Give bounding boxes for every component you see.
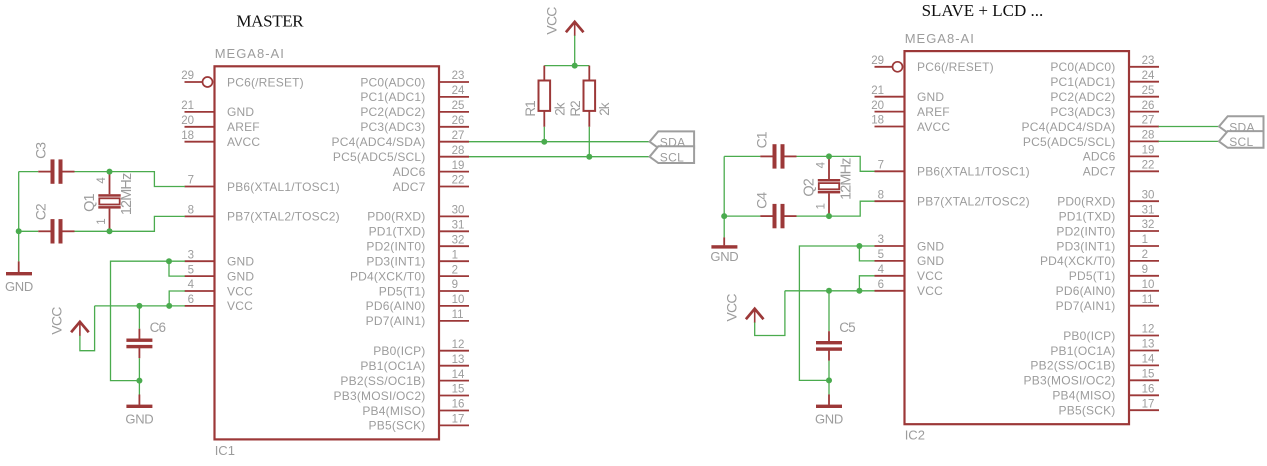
svg-text:PB3(MOSI/OC2): PB3(MOSI/OC2)	[334, 389, 426, 403]
svg-text:31: 31	[1142, 204, 1155, 216]
svg-text:GND: GND	[5, 279, 33, 294]
svg-text:22: 22	[452, 175, 465, 187]
svg-text:PD6(AIN0): PD6(AIN0)	[1056, 284, 1116, 298]
svg-text:R2: R2	[568, 101, 583, 117]
svg-text:6: 6	[878, 279, 884, 291]
svg-text:22: 22	[1142, 160, 1155, 172]
svg-text:AVCC: AVCC	[917, 120, 950, 134]
svg-text:PB7(XTAL2/TOSC2): PB7(XTAL2/TOSC2)	[227, 210, 340, 224]
svg-text:PB4(MISO): PB4(MISO)	[1052, 389, 1115, 403]
svg-text:25: 25	[452, 100, 465, 112]
svg-text:6: 6	[188, 294, 194, 306]
svg-text:VCC: VCC	[227, 284, 253, 298]
svg-text:PB6(XTAL1/TOSC1): PB6(XTAL1/TOSC1)	[227, 180, 340, 194]
svg-text:17: 17	[452, 414, 465, 426]
svg-text:PC6(/RESET): PC6(/RESET)	[917, 60, 994, 74]
svg-text:PD3(INT1): PD3(INT1)	[366, 255, 425, 269]
svg-text:28: 28	[1142, 130, 1155, 142]
svg-text:30: 30	[1142, 189, 1155, 201]
svg-text:20: 20	[871, 100, 884, 112]
svg-text:PB3(MOSI/OC2): PB3(MOSI/OC2)	[1024, 374, 1116, 388]
svg-text:PC6(/RESET): PC6(/RESET)	[227, 75, 304, 89]
svg-text:VCC: VCC	[227, 299, 253, 313]
svg-text:R1: R1	[523, 101, 538, 117]
svg-text:GND: GND	[227, 255, 254, 269]
svg-text:PC4(ADC4/SDA): PC4(ADC4/SDA)	[332, 135, 426, 149]
svg-text:SLAVE + LCD ...: SLAVE + LCD ...	[922, 1, 1044, 20]
svg-text:VCC: VCC	[544, 7, 560, 35]
svg-text:GND: GND	[227, 269, 254, 283]
svg-text:VCC: VCC	[917, 269, 943, 283]
svg-text:PD7(AIN1): PD7(AIN1)	[366, 314, 426, 328]
svg-text:3: 3	[188, 249, 194, 261]
svg-text:C2: C2	[33, 203, 49, 220]
svg-text:PB4(MISO): PB4(MISO)	[362, 404, 425, 418]
svg-text:2k: 2k	[552, 102, 567, 116]
svg-text:PD1(TXD): PD1(TXD)	[1059, 209, 1116, 223]
svg-text:PC1(ADC1): PC1(ADC1)	[1050, 75, 1115, 89]
svg-text:2k: 2k	[597, 102, 612, 116]
svg-text:18: 18	[871, 115, 884, 127]
svg-text:27: 27	[452, 130, 465, 142]
svg-text:Q2: Q2	[801, 178, 817, 196]
svg-text:30: 30	[452, 205, 465, 217]
svg-text:ADC7: ADC7	[393, 180, 426, 194]
svg-text:PD5(T1): PD5(T1)	[1069, 269, 1116, 283]
svg-text:AREF: AREF	[917, 105, 950, 119]
svg-text:14: 14	[1142, 354, 1155, 366]
svg-text:1: 1	[816, 203, 828, 209]
svg-text:ADC6: ADC6	[393, 165, 426, 179]
svg-text:7: 7	[188, 175, 194, 187]
svg-text:12MHz: 12MHz	[119, 173, 135, 215]
svg-text:PD5(T1): PD5(T1)	[379, 284, 426, 298]
svg-text:PC3(ADC3): PC3(ADC3)	[1050, 105, 1115, 119]
svg-text:PD0(RXD): PD0(RXD)	[367, 210, 425, 224]
svg-text:IC1: IC1	[215, 443, 235, 458]
svg-text:C5: C5	[839, 320, 855, 335]
svg-text:PC3(ADC3): PC3(ADC3)	[360, 120, 425, 134]
svg-text:23: 23	[452, 70, 465, 82]
svg-text:10: 10	[452, 294, 465, 306]
svg-text:PB2(SS/OC1B): PB2(SS/OC1B)	[1030, 359, 1115, 373]
svg-text:15: 15	[452, 384, 465, 396]
svg-text:13: 13	[452, 354, 465, 366]
svg-text:PB6(XTAL1/TOSC1): PB6(XTAL1/TOSC1)	[917, 165, 1030, 179]
svg-text:19: 19	[1142, 145, 1155, 157]
svg-text:21: 21	[871, 85, 884, 97]
svg-text:VCC: VCC	[917, 284, 943, 298]
svg-text:1: 1	[452, 249, 458, 261]
svg-text:ADC6: ADC6	[1083, 150, 1116, 164]
svg-text:SCL: SCL	[1229, 135, 1253, 149]
svg-text:5: 5	[188, 264, 194, 276]
svg-text:18: 18	[181, 130, 194, 142]
svg-text:27: 27	[1142, 115, 1155, 127]
svg-text:4: 4	[96, 177, 108, 184]
svg-text:4: 4	[188, 279, 195, 291]
svg-text:11: 11	[1142, 294, 1154, 306]
svg-text:GND: GND	[227, 105, 254, 119]
svg-text:PD3(INT1): PD3(INT1)	[1056, 239, 1115, 253]
svg-text:SCL: SCL	[660, 151, 684, 165]
svg-text:MEGA8-AI: MEGA8-AI	[905, 31, 975, 46]
svg-text:11: 11	[452, 309, 464, 321]
svg-text:PC4(ADC4/SDA): PC4(ADC4/SDA)	[1022, 120, 1116, 134]
svg-text:AVCC: AVCC	[227, 135, 260, 149]
svg-text:8: 8	[878, 189, 884, 201]
svg-text:21: 21	[181, 100, 194, 112]
svg-text:PD1(TXD): PD1(TXD)	[369, 225, 426, 239]
svg-text:GND: GND	[917, 239, 944, 253]
svg-text:4: 4	[816, 161, 828, 168]
svg-text:25: 25	[1142, 85, 1155, 97]
svg-text:26: 26	[452, 115, 465, 127]
svg-text:VCC: VCC	[724, 294, 740, 322]
svg-text:32: 32	[1142, 219, 1155, 231]
svg-text:PB0(ICP): PB0(ICP)	[373, 344, 425, 358]
svg-text:PD4(XCK/T0): PD4(XCK/T0)	[350, 269, 426, 283]
svg-text:13: 13	[1142, 339, 1155, 351]
svg-text:28: 28	[452, 145, 465, 157]
svg-text:PB1(OC1A): PB1(OC1A)	[360, 359, 425, 373]
svg-text:PD0(RXD): PD0(RXD)	[1057, 195, 1115, 209]
svg-text:PC5(ADC5/SCL): PC5(ADC5/SCL)	[1023, 135, 1116, 149]
svg-text:IC2: IC2	[905, 428, 925, 443]
svg-text:PD2(INT0): PD2(INT0)	[366, 240, 425, 254]
svg-text:PC0(ADC0): PC0(ADC0)	[1050, 60, 1115, 74]
svg-text:26: 26	[1142, 100, 1155, 112]
svg-text:24: 24	[1142, 70, 1155, 82]
svg-text:8: 8	[188, 205, 194, 217]
svg-text:GND: GND	[815, 411, 843, 426]
svg-text:12: 12	[452, 339, 465, 351]
svg-text:PD2(INT0): PD2(INT0)	[1056, 224, 1115, 238]
svg-text:C1: C1	[753, 131, 769, 148]
svg-text:7: 7	[878, 160, 884, 172]
svg-text:GND: GND	[917, 90, 944, 104]
svg-text:GND: GND	[917, 254, 944, 268]
svg-text:PC0(ADC0): PC0(ADC0)	[360, 75, 425, 89]
svg-text:17: 17	[1142, 398, 1155, 410]
svg-text:PB7(XTAL2/TOSC2): PB7(XTAL2/TOSC2)	[917, 195, 1030, 209]
svg-text:C3: C3	[33, 142, 49, 159]
svg-text:15: 15	[1142, 369, 1155, 381]
svg-text:ADC7: ADC7	[1083, 165, 1116, 179]
svg-text:PC1(ADC1): PC1(ADC1)	[360, 90, 425, 104]
svg-text:12MHz: 12MHz	[839, 158, 855, 200]
svg-text:1: 1	[1142, 234, 1148, 246]
svg-text:Q1: Q1	[82, 193, 98, 211]
svg-text:C6: C6	[150, 320, 166, 335]
svg-text:2: 2	[452, 264, 458, 276]
svg-text:20: 20	[181, 115, 194, 127]
svg-text:29: 29	[871, 55, 884, 67]
svg-text:PC2(ADC2): PC2(ADC2)	[1050, 90, 1115, 104]
svg-text:29: 29	[181, 70, 194, 82]
svg-text:16: 16	[452, 399, 465, 411]
svg-text:19: 19	[452, 160, 465, 172]
svg-text:PB0(ICP): PB0(ICP)	[1063, 329, 1115, 343]
svg-text:32: 32	[452, 234, 465, 246]
svg-text:31: 31	[452, 220, 465, 232]
svg-text:9: 9	[1142, 264, 1148, 276]
svg-text:GND: GND	[710, 249, 738, 264]
svg-text:23: 23	[1142, 55, 1155, 67]
svg-text:PB1(OC1A): PB1(OC1A)	[1050, 344, 1115, 358]
svg-text:14: 14	[452, 369, 465, 381]
svg-text:MASTER: MASTER	[236, 12, 304, 31]
svg-text:C4: C4	[753, 192, 769, 209]
svg-text:9: 9	[452, 279, 458, 291]
svg-text:PD4(XCK/T0): PD4(XCK/T0)	[1040, 254, 1116, 268]
svg-text:PC2(ADC2): PC2(ADC2)	[360, 105, 425, 119]
svg-text:PB5(SCK): PB5(SCK)	[369, 419, 426, 433]
svg-text:3: 3	[878, 234, 884, 246]
svg-text:12: 12	[1142, 324, 1155, 336]
svg-text:GND: GND	[125, 411, 153, 426]
svg-text:4: 4	[878, 264, 885, 276]
svg-text:16: 16	[1142, 384, 1155, 396]
svg-text:PD7(AIN1): PD7(AIN1)	[1056, 299, 1116, 313]
svg-text:VCC: VCC	[49, 307, 65, 335]
svg-text:24: 24	[452, 85, 465, 97]
svg-text:1: 1	[96, 218, 108, 224]
svg-text:5: 5	[878, 249, 884, 261]
svg-text:2: 2	[1142, 249, 1148, 261]
svg-text:PC5(ADC5/SCL): PC5(ADC5/SCL)	[333, 150, 426, 164]
svg-text:PB5(SCK): PB5(SCK)	[1059, 404, 1116, 418]
svg-text:AREF: AREF	[227, 120, 260, 134]
svg-text:PD6(AIN0): PD6(AIN0)	[366, 299, 426, 313]
svg-text:10: 10	[1142, 279, 1155, 291]
svg-text:PB2(SS/OC1B): PB2(SS/OC1B)	[340, 374, 425, 388]
svg-text:MEGA8-AI: MEGA8-AI	[215, 46, 285, 61]
